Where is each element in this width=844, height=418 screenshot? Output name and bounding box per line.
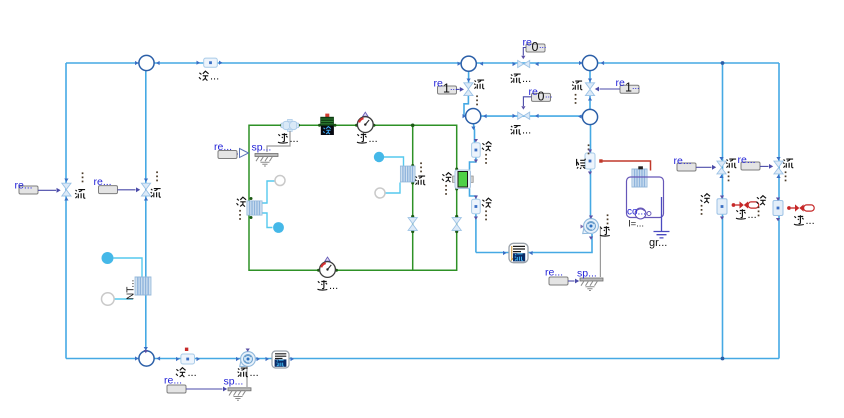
svg-text:...: ... — [748, 209, 757, 221]
sensor open probe condenser — [275, 176, 285, 186]
label valve V2 rotated — [151, 171, 161, 197]
label valve V10 flow — [511, 125, 532, 137]
wire top header y=63 — [66, 62, 779, 64]
wire hot water line (red) — [601, 161, 651, 171]
heater electric 2 — [787, 204, 814, 211]
valve V6 on right riser x=779 — [774, 161, 783, 174]
node junction circle D mid-center — [466, 109, 481, 124]
separator gas-liquid small (bottom line) — [272, 351, 289, 368]
valve V1 on left riser — [62, 183, 71, 196]
svg-text:re...: re... — [15, 180, 33, 192]
svg-text:...: ... — [806, 215, 815, 227]
svg-text:re...: re... — [164, 375, 182, 387]
svg-text:...: ... — [290, 133, 299, 145]
sensor box2 below plate hx — [472, 199, 481, 214]
label valve V5 rotated — [726, 159, 736, 181]
svg-text:...: ... — [250, 367, 259, 379]
label box 722 — [701, 194, 711, 215]
plate heat exchanger (green block) — [453, 170, 474, 189]
setpoint re0 block V10 — [521, 86, 552, 110]
label heater2 — [794, 215, 815, 227]
valve V5 on riser x=722.5 — [717, 161, 726, 174]
wire: main chilled-water loop (cyan) — [66, 63, 779, 359]
svg-text:re: re — [616, 77, 625, 89]
svg-text:0: 0 — [532, 40, 539, 54]
node red tap dot — [599, 159, 602, 162]
label bottom flow meter cold — [176, 367, 197, 379]
wire bottom return y=358.5 — [66, 358, 779, 360]
node junction circle F bottom-left — [139, 351, 154, 366]
sensor filled probe evaporator — [374, 152, 384, 162]
label valve V4 rotated — [572, 81, 582, 104]
wire right valve column at node C — [589, 71, 591, 109]
valve V10 horizontal second row — [518, 112, 530, 119]
svg-text:gr...: gr... — [649, 237, 667, 249]
svg-text:...: ... — [522, 125, 531, 137]
sensor box1 on evaporator feed — [472, 143, 481, 158]
wire evaporator tap upper — [384, 157, 404, 166]
svg-text:1: 1 — [625, 81, 632, 95]
wire green inner branch x=412.7 — [412, 125, 414, 270]
wire green rectangle — [249, 125, 457, 270]
svg-text:re...: re... — [738, 154, 756, 166]
svg-text:re...: re... — [545, 267, 563, 279]
wire NT sensor tap upper — [114, 258, 143, 277]
heat-exchanger coil NT — [135, 277, 151, 295]
actuator sp1 compressor speed — [218, 131, 290, 166]
svg-text:re...: re... — [94, 176, 112, 188]
svg-text:l=...: l=... — [629, 219, 645, 230]
svg-text:...: ... — [539, 40, 547, 50]
heat-exchanger coil heat-pump condenser — [632, 169, 647, 187]
svg-text:re...: re... — [214, 141, 232, 153]
label water meter rotated — [577, 144, 590, 169]
actuator sp2 pump speed (mid) — [549, 226, 603, 291]
svg-text:NT...: NT... — [126, 279, 137, 300]
node junction dot bottom x=722.5 — [721, 357, 725, 361]
wire second row y=116 — [481, 115, 583, 117]
label box 779 — [757, 196, 767, 217]
label pump glyph — [600, 214, 610, 236]
node junction circle A top-left — [139, 55, 154, 70]
arrow ticks on cyan lines — [64, 61, 780, 362]
setpoint re0 block V9 — [521, 37, 546, 60]
label flow meter top (cold) — [199, 71, 219, 83]
wire valve column at node B — [464, 71, 469, 116]
svg-text:...: ... — [329, 280, 338, 292]
svg-text:...: ... — [545, 90, 553, 100]
svg-text:co...: co... — [627, 207, 646, 218]
sensor flow meter on top header — [204, 58, 218, 67]
tank liquid receiver (dark) — [320, 114, 334, 135]
actuator sp3 pump speed (bottom) — [167, 366, 251, 400]
svg-text:...: ... — [450, 82, 458, 92]
svg-text:re...: re... — [674, 155, 692, 167]
compressor body — [281, 119, 298, 131]
svg-text:0: 0 — [538, 90, 545, 104]
sensor water meter — [585, 153, 595, 169]
label valve V9 flow — [511, 73, 532, 85]
label valve V3 rotated — [474, 80, 484, 105]
label sensor box1 — [482, 142, 492, 164]
label plate hx — [442, 173, 452, 195]
wire pump riser x=590.5 — [590, 125, 592, 219]
svg-text:...: ... — [632, 81, 640, 91]
sensor filled probe NT upper — [102, 252, 114, 264]
wire jog through plate hx — [470, 157, 476, 170]
sensor box on right riser — [773, 201, 783, 216]
separator gas-liquid big (x=518.5) — [509, 243, 528, 262]
label evaporator rotated — [415, 162, 425, 184]
label condenser coil — [237, 197, 247, 220]
pump P1 circulating (mid) — [583, 219, 599, 234]
svg-text:re: re — [434, 78, 443, 90]
wire evaporator feed drop x=474.5 — [473, 124, 474, 143]
label bottom pump — [238, 367, 259, 379]
heater electric 1 — [732, 201, 759, 208]
svg-text:sp...: sp... — [577, 268, 597, 280]
heat pump unit co (purple loop) — [627, 166, 664, 219]
gauge superheat top — [357, 112, 373, 132]
svg-text:sp...: sp... — [224, 376, 244, 388]
svg-text:...: ... — [210, 71, 219, 83]
valve V7 green branch — [408, 218, 417, 231]
purple connection arrows — [144, 139, 780, 353]
valve V8 green right leg — [452, 218, 461, 231]
setpoint re1 block V4 — [595, 77, 640, 95]
wire evaporator tap lower — [385, 183, 400, 194]
wire left riser x=66 — [65, 63, 67, 359]
wire second left riser x=145.8 — [145, 63, 147, 351]
valve V3 below node B — [464, 83, 473, 96]
valve V9 horizontal top row — [518, 60, 530, 67]
wire jog below plate hx — [470, 188, 476, 199]
gauge superheat bottom — [320, 257, 336, 277]
wire condenser tap upper — [262, 181, 275, 203]
arrow inlet marker pump P1 — [581, 225, 585, 229]
label valve V6 rotated — [783, 159, 793, 181]
svg-text:...: ... — [188, 367, 197, 379]
node junction circle E mid-right — [582, 109, 597, 124]
node green tee dot — [411, 124, 415, 128]
node junction circle C top-right — [582, 55, 597, 70]
setpoint re1 block V3 — [434, 78, 465, 96]
label gauge top — [357, 133, 378, 145]
sensor box on riser x=722.5 — [717, 199, 727, 215]
setpoint re block V5 — [674, 155, 717, 171]
label gauge bottom — [318, 280, 339, 292]
node red status dot above bottom flow meter — [185, 348, 188, 351]
ground heat pump (purple) — [654, 197, 670, 238]
svg-text:1: 1 — [443, 82, 450, 96]
wire right riser x=779 — [778, 63, 780, 359]
sensor open probe NT lower — [102, 293, 115, 306]
heat-exchanger coil condenser (left green loop) — [247, 201, 262, 215]
label compressor — [278, 133, 299, 145]
sensor filled probe condenser — [273, 222, 284, 233]
setpoint re block V6 — [738, 154, 774, 170]
wire separator run y=252.5 — [476, 234, 592, 253]
wire sensor taps (bright cyan) — [114, 157, 404, 299]
setpoint re block V2 — [94, 176, 141, 194]
label sensor box2 — [482, 198, 492, 220]
wire middle riser x=722.5 — [722, 63, 724, 359]
valve V4 below node C — [585, 83, 594, 96]
label valve V1 rotated — [75, 172, 85, 198]
setpoint re block V1 — [15, 180, 61, 195]
wire NT sensor tap lower — [114, 298, 133, 300]
node junction circle B top-center — [461, 56, 476, 71]
pump P2 centrifugal (bottom) — [240, 352, 256, 367]
svg-text:sp...: sp... — [252, 142, 272, 154]
wire condenser tap lower — [262, 213, 272, 228]
sensor open probe evaporator — [375, 188, 385, 198]
svg-text:...: ... — [369, 133, 378, 145]
node green connection dots — [250, 124, 459, 272]
wire drop to gas-liquid separator line — [475, 214, 477, 253]
sensor bottom-line flow meter — [181, 354, 195, 364]
valve V2 on second riser — [141, 183, 150, 196]
heat-exchanger coil evaporator — [400, 166, 415, 182]
label heater1 — [736, 209, 757, 221]
svg-text:...: ... — [522, 73, 531, 85]
wire refrigerant loop (green) — [249, 125, 457, 270]
node junction dot top x=722.5 — [721, 61, 725, 65]
